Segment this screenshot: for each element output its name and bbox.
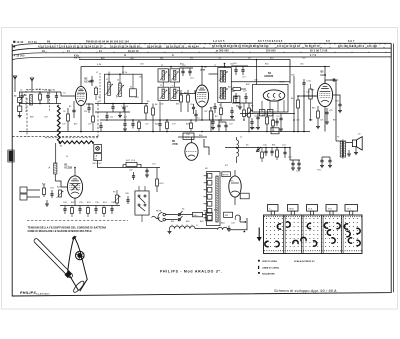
svg-text:47: 47 xyxy=(116,97,118,99)
IF transformer T2 can xyxy=(218,68,232,103)
svg-text:18 19 20 22 24 26 28 30: 18 19 20 22 24 26 28 30 xyxy=(110,44,140,48)
svg-text:TENSIONI DELLA FILODIFFUSIONE: TENSIONI DELLA FILODIFFUSIONE DEL CORDON… xyxy=(28,227,107,230)
wire converter cathode down xyxy=(80,106,82,132)
resistor R50 under T2 xyxy=(220,108,223,115)
dial scale tick marks xyxy=(39,43,41,44)
wire tone caps xyxy=(322,156,330,158)
table divider 3 xyxy=(321,215,323,254)
switch S2 contacts xyxy=(257,149,259,151)
resistor R41 filler xyxy=(166,122,169,129)
ground speaker xyxy=(348,150,350,154)
IF transformer T1 box secondary FM xyxy=(158,87,169,100)
svg-text:T2: T2 xyxy=(214,65,216,67)
small box above table xyxy=(240,193,249,199)
capacitor C85 xyxy=(218,122,220,125)
svg-text:P1 B1: P1 B1 xyxy=(36,89,41,91)
chassis layout table xyxy=(264,215,363,254)
ground cluster xyxy=(46,200,48,204)
svg-text:55 60 65 70: 55 60 65 70 xyxy=(305,44,320,48)
svg-text:B16: B16 xyxy=(230,181,233,183)
wire power top distribution xyxy=(225,147,290,149)
coil loop power xyxy=(235,215,240,218)
legend line 1 xyxy=(258,260,260,262)
svg-text:P3: P3 xyxy=(113,192,115,194)
wire T1 links xyxy=(162,82,164,87)
svg-text:C61: C61 xyxy=(218,58,221,60)
wire rail drop to T2 xyxy=(224,67,226,68)
wire below B4 box xyxy=(240,113,295,115)
svg-text:T800: T800 xyxy=(289,208,295,210)
svg-text:C76: C76 xyxy=(62,124,65,126)
svg-text:C1: C1 xyxy=(20,90,22,92)
wire T2 primary top xyxy=(224,64,226,68)
capacitor C3 xyxy=(56,92,58,96)
heater chain bumps second xyxy=(218,227,228,229)
svg-text:RETE: RETE xyxy=(223,174,229,176)
capacitor C35 xyxy=(79,206,81,209)
wire V2 bottom net xyxy=(219,121,226,123)
svg-text:B9: B9 xyxy=(210,108,212,110)
potentiometer R27 xyxy=(116,195,119,203)
svg-text:B5: B5 xyxy=(147,101,149,103)
dial scale line 4 xyxy=(12,57,391,60)
svg-text:C65: C65 xyxy=(300,63,303,65)
svg-text:UCC85: UCC85 xyxy=(65,168,73,170)
resistor R21 vertical xyxy=(156,179,159,186)
wire B1 left xyxy=(55,181,67,187)
wire rail drop to tube B3 xyxy=(201,67,203,86)
svg-text:6,6 7: 6,6 7 xyxy=(348,40,355,43)
svg-text:C16: C16 xyxy=(233,63,237,65)
tube sockets on chassis xyxy=(277,224,281,229)
svg-text:B18: B18 xyxy=(160,183,165,185)
svg-text:B36: B36 xyxy=(246,84,249,86)
svg-text:1,2 4,5 5: 1,2 4,5 5 xyxy=(213,40,225,43)
dial lamp value box xyxy=(94,154,102,161)
wire T2 to IF anode xyxy=(209,73,218,75)
tube B7 rectifier second xyxy=(229,176,241,197)
svg-text:C2: C2 xyxy=(46,96,48,98)
wire IF amp cathode xyxy=(201,107,203,120)
svg-text:B48: B48 xyxy=(30,117,33,119)
svg-text:C13: C13 xyxy=(190,78,194,80)
svg-text:C72: C72 xyxy=(145,124,148,126)
socket strip xyxy=(207,172,221,226)
svg-text:116 120 9: 116 120 9 xyxy=(352,44,365,48)
capacitor C25 cathode xyxy=(326,108,328,112)
capacitor C44 heater xyxy=(228,226,230,229)
svg-text:13,4E: 13,4E xyxy=(17,41,24,44)
svg-text:B30: B30 xyxy=(199,135,202,137)
wire screen xyxy=(333,95,341,104)
svg-text:6,5 7 7,5 8 8,5 9 9,5: 6,5 7 7,5 8 8,5 9 9,5 xyxy=(258,40,283,43)
oscillator box xyxy=(105,74,143,103)
resistor R53 under B4 xyxy=(272,120,275,126)
junction dots AVC bus xyxy=(124,119,126,121)
capacitor C10 xyxy=(123,104,125,108)
svg-text:4 7 9: 4 7 9 xyxy=(310,54,317,57)
svg-text:PHILIPS: PHILIPS xyxy=(20,291,36,295)
resistor R8 xyxy=(187,95,190,102)
svg-text:L6: L6 xyxy=(66,156,68,158)
svg-text:B.8: B.8 xyxy=(308,208,312,210)
resistor R6 xyxy=(152,108,155,115)
svg-text:C17: C17 xyxy=(242,77,246,79)
dash-dot shield mid xyxy=(45,137,98,139)
drive cord knob xyxy=(64,271,71,278)
svg-text:RETE: RETE xyxy=(74,58,81,60)
output transformer T3 xyxy=(340,141,342,157)
resistor R10 detector load xyxy=(233,88,241,91)
dial cord zigzag horizontal xyxy=(59,141,93,144)
svg-text:m 560 600: m 560 600 xyxy=(216,51,229,53)
wire stub connector 1 xyxy=(240,221,245,223)
resistor R59 detector xyxy=(234,96,240,102)
svg-text:C31: C31 xyxy=(152,164,156,166)
antenna symbol FM dipole xyxy=(13,76,17,79)
svg-text:CENT DI CERA: CENT DI CERA xyxy=(262,260,277,263)
wire AVC into T1 area xyxy=(159,102,161,121)
svg-text:UABC80: UABC80 xyxy=(264,75,274,78)
svg-text:B15: B15 xyxy=(312,108,315,110)
svg-text:C40: C40 xyxy=(263,145,267,147)
table divider 2 xyxy=(301,215,303,254)
svg-text:B40: B40 xyxy=(214,210,217,212)
svg-text:18 19 20 21 22: 18 19 20 21 22 xyxy=(166,44,185,48)
choke L5 xyxy=(237,140,239,157)
dial cord zigzag vertical xyxy=(57,105,60,142)
svg-text:B44: B44 xyxy=(155,124,158,126)
capacitor C87 power xyxy=(271,148,273,152)
svg-text:S.p.A MILANO: S.p.A MILANO xyxy=(36,293,50,296)
junction dots power xyxy=(265,147,267,149)
capacitor C38 xyxy=(127,196,129,200)
capacitor C12 T1 xyxy=(182,68,184,71)
wire antenna cluster top xyxy=(19,91,61,93)
svg-text:L2: L2 xyxy=(96,72,98,74)
wire under B4 xyxy=(272,114,274,121)
ferrite antenna bar A xyxy=(55,143,57,163)
wire power right drop xyxy=(290,148,300,161)
wire osc box top to rail xyxy=(122,67,124,75)
mains cord squiggle xyxy=(152,216,160,219)
speaker LS xyxy=(352,140,356,147)
svg-text:X1: X1 xyxy=(130,87,132,89)
svg-text:4n7: 4n7 xyxy=(124,117,127,119)
resistor R31 dropper xyxy=(193,212,203,216)
socket strip terminal 2 xyxy=(207,181,212,186)
wire rectifier top xyxy=(178,136,207,138)
svg-text:B20: B20 xyxy=(42,184,45,186)
tube B6 UY85 rectifier xyxy=(185,143,198,161)
svg-text:B31: B31 xyxy=(190,58,193,60)
ground heater left xyxy=(169,229,171,231)
capacitor C41 xyxy=(284,148,286,153)
coil L1 antenna xyxy=(30,95,33,106)
svg-text:SW: SW xyxy=(225,215,229,217)
capacitor C28 tone xyxy=(329,157,331,160)
capacitor C2 xyxy=(47,92,49,96)
wire osc to AVC xyxy=(124,109,126,120)
svg-text:C9: C9 xyxy=(272,131,275,133)
resistor R26 xyxy=(103,208,106,214)
svg-text:4n7: 4n7 xyxy=(232,91,235,93)
svg-text:C5: C5 xyxy=(63,93,65,95)
capacitor C36 xyxy=(95,206,97,209)
table header box 4 xyxy=(326,205,337,212)
svg-text:UL84: UL84 xyxy=(321,74,327,77)
wire stub connector 2 xyxy=(243,231,245,233)
svg-text:4,5 5 5,5 6 6,5 7 7,5 8 8,5 9: 4,5 5 5,5 6 6,5 7 7,5 8 8,5 9 10 11 12 1… xyxy=(38,45,103,49)
tube B1 UCC85 FM xyxy=(67,176,82,198)
junction dots power second xyxy=(257,147,259,149)
wire oscillator bottom xyxy=(95,103,148,105)
svg-text:124 128: 124 128 xyxy=(367,44,377,48)
svg-text:COME DI REGOLARE LE NAZIONI IN: COME DI REGOLARE LE NAZIONI IN MODO MULT… xyxy=(28,230,93,233)
coil L3 oscillator xyxy=(119,83,122,97)
svg-text:m: m xyxy=(124,55,126,57)
wire rail drop to tube B5 output xyxy=(324,67,326,84)
ground detector xyxy=(239,103,241,107)
svg-text:C35: C35 xyxy=(79,202,83,204)
svg-text:L3: L3 xyxy=(117,80,119,82)
svg-text:C68: C68 xyxy=(254,80,257,82)
resistor R5 xyxy=(145,106,148,113)
table dot grid xyxy=(265,217,268,220)
resistor R20 xyxy=(126,162,137,166)
capacitor C14 xyxy=(193,104,195,107)
svg-text:700 800: 700 800 xyxy=(266,51,276,53)
svg-text:C38: C38 xyxy=(125,193,129,195)
resistor R40 filler xyxy=(138,122,141,129)
wire transformer primary xyxy=(336,140,341,142)
svg-text:A: A xyxy=(172,54,174,57)
svg-text:L3: L3 xyxy=(108,72,110,74)
svg-text:C62: C62 xyxy=(302,57,305,59)
ground tone C28 xyxy=(328,165,332,167)
bold arrow to chassis table xyxy=(258,228,260,238)
svg-text:95 5 96 7,5 98: 95 5 96 7,5 98 xyxy=(310,51,328,53)
resistor R7 xyxy=(180,95,183,102)
wire heater stub up xyxy=(245,218,248,230)
svg-text:TNL: TNL xyxy=(317,170,322,172)
svg-text:C15: C15 xyxy=(196,118,200,120)
svg-text:RETE: RETE xyxy=(156,211,162,213)
table top dotted row xyxy=(264,216,265,217)
junction C30 xyxy=(303,95,305,97)
svg-text:M1: M1 xyxy=(205,168,208,170)
IF transformer T1 box primary FM xyxy=(158,69,169,82)
wire rail drop to B4 box xyxy=(256,60,258,85)
svg-text:6 8 10 12 14 16 18: 6 8 10 12 14 16 18 xyxy=(277,44,301,48)
socket strip terminal 6 xyxy=(207,209,212,214)
wire cluster to converter grid xyxy=(61,92,76,96)
wire switch to resistor xyxy=(181,214,193,216)
capacitor C15 xyxy=(195,110,197,114)
border frame right inner line xyxy=(392,43,394,292)
wire det bus xyxy=(212,113,214,118)
resistor R4 osc left xyxy=(95,88,98,95)
svg-text:C₁: C₁ xyxy=(269,208,272,210)
svg-text:B32: B32 xyxy=(270,58,273,60)
socket strip terminal 4 xyxy=(207,195,212,200)
capacitor C7 osc left xyxy=(91,76,93,80)
ground C31 xyxy=(145,174,149,176)
wire rail drop to T1 xyxy=(170,67,172,69)
svg-text:C74: C74 xyxy=(229,124,232,126)
resistor R55 xyxy=(190,123,193,129)
capacitor C26 screen xyxy=(338,103,341,105)
antenna symbol AM xyxy=(30,78,34,81)
table header box 1 xyxy=(268,205,279,212)
svg-text:4 15 300: 4 15 300 xyxy=(14,55,25,58)
dial scale line 1 xyxy=(12,43,391,46)
resistor R56 power xyxy=(261,152,264,158)
capacitor C21 xyxy=(257,114,259,118)
ground dashed line lower left xyxy=(27,220,128,222)
capacitor C43 filter xyxy=(298,160,300,163)
capacitor C52 filler xyxy=(159,120,161,124)
svg-text:B42: B42 xyxy=(186,221,189,223)
capacitor C33 xyxy=(51,190,53,194)
ground B4 second xyxy=(280,126,282,129)
capacitor C88 under B4 xyxy=(276,118,278,121)
svg-text:C11: C11 xyxy=(110,117,113,119)
svg-text:B34: B34 xyxy=(265,63,268,65)
box on ground bus xyxy=(271,128,279,134)
svg-text:C37: C37 xyxy=(111,202,115,204)
svg-text:C32: C32 xyxy=(129,170,133,172)
svg-text:32 34 36 38: 32 34 36 38 xyxy=(147,44,162,48)
wire detector top xyxy=(231,65,248,67)
svg-text:C10: C10 xyxy=(135,97,139,99)
tube B2 UCH81 converter xyxy=(75,86,86,105)
wire transformer secondary to speaker xyxy=(346,142,353,144)
capacitor C24 anode xyxy=(330,79,333,81)
drive pulley disc xyxy=(76,251,85,260)
svg-text:B8: B8 xyxy=(184,93,186,95)
table bottom dotted row xyxy=(264,250,265,251)
resistor R23 pot xyxy=(59,190,62,197)
wire oscillator verticals xyxy=(108,74,110,82)
wire B1 top xyxy=(74,168,76,176)
resistor R25 xyxy=(87,208,90,214)
wire output anode to transformer xyxy=(325,80,336,83)
svg-text:MEM: MEM xyxy=(280,81,285,83)
svg-text:B43: B43 xyxy=(200,221,203,223)
resistor R2a left chain xyxy=(18,98,22,103)
capacitor C31 xyxy=(146,168,148,171)
IF transformer T1 box primary AM xyxy=(170,69,180,82)
ground output cathode xyxy=(317,124,319,126)
switch contacts xyxy=(138,195,140,197)
junction dots oscillator xyxy=(108,73,110,75)
scale end marks left xyxy=(13,41,15,43)
svg-text:FM 88 90 92 94 96 98 100 102 1: FM 88 90 92 94 96 98 100 102 104 xyxy=(86,40,129,43)
svg-text:52 54 56 58 60 64 68 72 76 80: 52 54 56 58 60 64 68 72 76 80 84 88 92 9… xyxy=(212,44,269,48)
table divider 1 xyxy=(283,215,285,254)
capacitor C18 xyxy=(235,93,237,97)
box fuse xyxy=(206,212,212,221)
capacitor C51 filler xyxy=(132,120,134,124)
capacitor C30 coupling xyxy=(303,79,305,83)
tube B5 UL84 output xyxy=(317,83,332,106)
resistor R15 cathode xyxy=(317,111,320,118)
wire oscillator mid xyxy=(95,111,130,113)
resistor R54 at 310 xyxy=(309,89,312,99)
resistor R1 xyxy=(39,92,41,94)
wire B4 pins down xyxy=(261,101,263,112)
socket strip terminal 1 xyxy=(207,174,212,179)
svg-text:C6: C6 xyxy=(63,111,65,113)
vertical wire x310 xyxy=(310,119,312,121)
ground transformer xyxy=(355,147,357,152)
junction dots ground bus xyxy=(80,131,82,133)
wire heater right xyxy=(228,229,245,231)
wire from converter anode to rail xyxy=(80,67,82,87)
svg-text:C25: C25 xyxy=(329,110,333,112)
wire IF grid xyxy=(180,90,196,94)
svg-text:B6: B6 xyxy=(155,104,157,106)
svg-text:Schema di sviluppo App. 90: Schema di sviluppo App. 90 / 90 A xyxy=(274,289,337,293)
resistor R30 xyxy=(276,150,279,157)
table divider 4 xyxy=(341,215,343,254)
svg-text:B11: B11 xyxy=(236,106,239,108)
shield dashed line oscillator xyxy=(99,73,101,103)
ground oscillator xyxy=(119,112,121,115)
svg-text:SCALA IN PREZZ 4 V: SCALA IN PREZZ 4 V xyxy=(294,260,315,263)
dial lamp box LA xyxy=(94,145,102,153)
ground bus upper section xyxy=(19,131,310,133)
wire long vertical x294 xyxy=(293,76,295,132)
svg-text:C22: C22 xyxy=(276,116,280,118)
svg-text:C71: C71 xyxy=(320,120,323,122)
wire output return xyxy=(324,107,326,132)
wire heater line left xyxy=(98,161,160,168)
resistor R12 xyxy=(266,117,269,124)
resistor R3 converter grid xyxy=(67,114,70,121)
capacitor C1 antenna trimmer xyxy=(21,92,23,96)
resistor R9 cathode xyxy=(209,111,212,120)
wire coupling down xyxy=(303,90,305,132)
svg-text:PHILIPS - Mod ARALDO 3″.: PHILIPS - Mod ARALDO 3″. xyxy=(160,270,223,274)
svg-text:P2: P2 xyxy=(251,106,253,108)
svg-text:31: 31 xyxy=(99,51,102,53)
shield box around tube B4 xyxy=(253,85,289,113)
svg-text:C70: C70 xyxy=(296,120,299,122)
wire to output grid xyxy=(304,95,318,97)
drive cord upper hook xyxy=(72,236,76,240)
svg-text:C67: C67 xyxy=(204,111,207,113)
socket strip hatched bar xyxy=(216,176,218,222)
svg-text:C30: C30 xyxy=(307,81,312,83)
dial scale line 2 xyxy=(12,48,391,51)
capacitor C81 detector xyxy=(231,107,233,111)
svg-text:A: A xyxy=(49,166,51,170)
svg-text:88: 88 xyxy=(47,41,51,44)
svg-text:B41: B41 xyxy=(171,221,174,223)
svg-text:25 19 16: 25 19 16 xyxy=(128,51,139,53)
ground output cap xyxy=(326,119,328,122)
capacitor C84 B4 area xyxy=(251,118,253,122)
table header box 2 xyxy=(288,205,299,212)
socket strip terminal 3 xyxy=(207,188,212,193)
svg-text:B35: B35 xyxy=(176,104,179,106)
wire detector bottom xyxy=(232,102,252,104)
capacitor C27 tone xyxy=(321,157,323,160)
svg-text:S1: S1 xyxy=(60,146,62,148)
wire T1 caps top xyxy=(180,67,194,69)
